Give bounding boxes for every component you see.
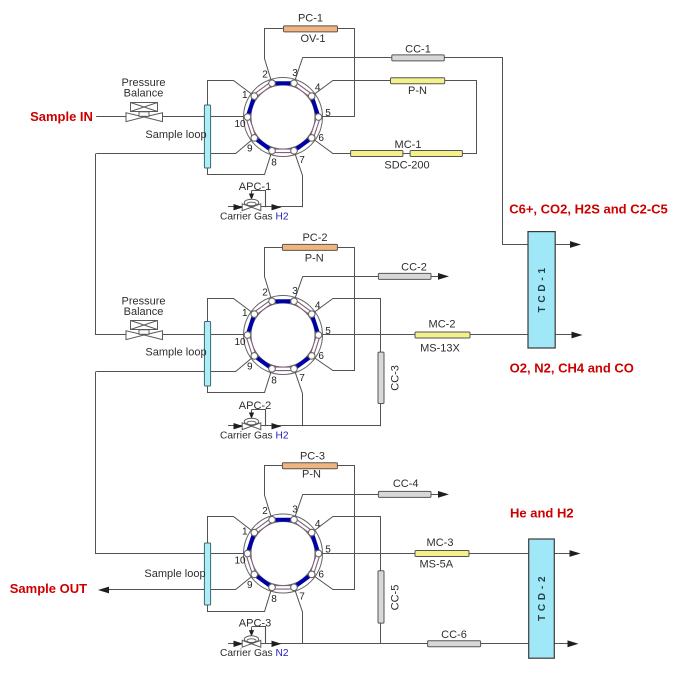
svg-text:Carrier Gas N2: Carrier Gas N2 bbox=[220, 648, 289, 659]
svg-text:APC-1: APC-1 bbox=[239, 181, 271, 193]
arrow TCD-1 lower outlet bbox=[555, 334, 572, 336]
svg-text:Carrier Gas H2: Carrier Gas H2 bbox=[220, 431, 289, 442]
svg-text:MC-2: MC-2 bbox=[429, 318, 456, 330]
svg-text:Sample OUT: Sample OUT bbox=[10, 581, 87, 596]
valve V1 loop tube port 3-port 4 bbox=[294, 83, 312, 96]
valve V1 port 3 bbox=[291, 68, 299, 87]
svg-text:CC-1: CC-1 bbox=[405, 43, 431, 55]
column P-N valve1 (yellow) bbox=[391, 78, 445, 84]
wire column PC-2 to valve V2 port 6 bbox=[312, 248, 355, 371]
valve V2 port 4 bbox=[308, 301, 321, 318]
valve V1 port 2 bbox=[262, 69, 275, 86]
column MC-1 segment B (yellow) bbox=[410, 151, 462, 157]
wire inter-valve line V1 to V2 pressure balance bbox=[96, 154, 205, 335]
svg-text:MS-13X: MS-13X bbox=[420, 342, 460, 354]
svg-text:MS-5A: MS-5A bbox=[419, 558, 453, 570]
column CC-6 (gray) bbox=[428, 641, 481, 647]
svg-text:MC-1: MC-1 bbox=[395, 139, 422, 151]
svg-text:7: 7 bbox=[299, 373, 305, 384]
valve V2 rotor channel port 8-port 9 bbox=[254, 356, 272, 369]
svg-text:OV-1: OV-1 bbox=[300, 33, 325, 45]
svg-text:5: 5 bbox=[325, 545, 331, 556]
svg-text:9: 9 bbox=[247, 144, 253, 155]
svg-text:Sample IN: Sample IN bbox=[30, 109, 93, 124]
svg-text:PC-3: PC-3 bbox=[300, 450, 325, 462]
valve V2 port 2 bbox=[262, 287, 275, 304]
svg-text:7: 7 bbox=[299, 155, 305, 166]
svg-text:He and H2: He and H2 bbox=[510, 505, 574, 520]
svg-text:CC-6: CC-6 bbox=[441, 629, 467, 641]
valve V3 port 8 bbox=[269, 584, 278, 605]
wire valve V3 port 9 to sample loop SL3 bbox=[211, 574, 255, 589]
wire valve V2 port 3 to column CC-2 vent bbox=[294, 277, 378, 302]
svg-text:9: 9 bbox=[247, 580, 253, 591]
svg-text:3: 3 bbox=[292, 504, 298, 515]
label Pressure Balance PB1 bbox=[121, 77, 165, 100]
svg-text:9: 9 bbox=[247, 362, 253, 373]
wire valve V2 port 5 to column MC-2 bbox=[319, 334, 416, 336]
wire valve V1 port 2 to column OV-1 bbox=[265, 29, 284, 84]
pressure balance PB2 bbox=[126, 321, 163, 340]
arrow TCD-1 upper outlet bbox=[570, 241, 581, 248]
valve V1 rotor channel port 2-port 3 bbox=[272, 81, 294, 85]
valve V2 loop tube port 3-port 4 bbox=[294, 301, 312, 314]
label Pressure Balance PB2 bbox=[121, 295, 165, 318]
wire column P-N to column MC-1 bbox=[445, 81, 477, 154]
svg-text:1: 1 bbox=[242, 527, 248, 538]
wire valve V1 port 6 to column MC-1 bbox=[312, 138, 351, 154]
valve V1 port 10 bbox=[234, 114, 250, 130]
wire carrier gas 2 inlet bbox=[228, 425, 381, 427]
wire column MC-2 to TCD-1 bbox=[470, 334, 528, 336]
svg-text:PC-2: PC-2 bbox=[302, 232, 327, 244]
APC-3 automatic pressure controller valve bbox=[242, 627, 265, 648]
wire valve V1 port 3 to column CC-1 to TCD-1 bbox=[294, 58, 528, 245]
valve V1 port 7 bbox=[291, 148, 306, 166]
wire Sample IN inlet line to sample loop SL1 bbox=[96, 116, 204, 118]
sample loop SL1 bbox=[204, 105, 210, 168]
valve V2 rotor channel port 10-port 1 bbox=[248, 314, 255, 335]
valve V1 rotor channel port 8-port 9 bbox=[254, 138, 272, 151]
wire valve V2 port 8 to sample loop SL2 bottom bbox=[208, 369, 273, 393]
svg-text:1: 1 bbox=[242, 308, 248, 319]
detector TCD-2 bbox=[529, 539, 555, 658]
valve V3 rotor channel port 6-port 7 bbox=[294, 574, 312, 587]
svg-text:Sample loop: Sample loop bbox=[145, 129, 206, 141]
wire valve V1 port 4 to column P-N bbox=[312, 81, 391, 97]
valve V1 port 8 bbox=[269, 148, 278, 169]
valve V3 port 6 bbox=[308, 570, 324, 581]
column CC-1 (gray) bbox=[392, 55, 445, 61]
svg-text:P-N: P-N bbox=[302, 468, 321, 480]
arrow carrier gas 2 after APC-2 bbox=[272, 423, 282, 429]
valve V3 loop tube port 1-port 2 bbox=[254, 520, 272, 533]
valve V1 port 6 bbox=[308, 133, 324, 144]
column MC-1 segment A (yellow) bbox=[351, 151, 403, 157]
svg-text:2: 2 bbox=[262, 287, 268, 298]
valve V3 port 7 bbox=[291, 584, 306, 602]
svg-text:PC-1: PC-1 bbox=[298, 12, 323, 24]
valve V1 port 5 bbox=[315, 108, 331, 120]
valve V2 loop tube port 5-port 6 bbox=[312, 335, 319, 356]
wire TCD-1 upper outlet bbox=[555, 244, 570, 246]
svg-text:APC-2: APC-2 bbox=[239, 400, 271, 412]
svg-text:10: 10 bbox=[234, 119, 246, 130]
valve V2 port 1 bbox=[242, 308, 258, 319]
wire valve V3 port 7 to carrier line 3 bbox=[294, 587, 303, 644]
svg-text:4: 4 bbox=[315, 519, 321, 530]
valve V2 rotor channel port 4-port 5 bbox=[312, 314, 319, 335]
svg-text:MC-3: MC-3 bbox=[427, 537, 454, 549]
svg-text:T C D - 2: T C D - 2 bbox=[537, 576, 548, 621]
wire valve V2 port 4 to column CC-3 bbox=[312, 299, 381, 353]
wire valve V1 port 10 to sample loop SL1 bbox=[211, 116, 248, 118]
wire valve V1 port 1 to sample loop SL1 top bbox=[208, 81, 255, 106]
valve V2 rotor channel port 6-port 7 bbox=[294, 356, 312, 369]
valve V3 loop tube port 7-port 8 bbox=[272, 585, 294, 590]
valve V3 port 3 bbox=[291, 504, 299, 523]
arrow TCD-2 upper outlet bbox=[554, 553, 570, 555]
wire valve V3 port 1 to sample loop SL3 top bbox=[208, 517, 255, 544]
wire valve V1 port 9 to sample loop SL1 bbox=[211, 138, 255, 154]
svg-text:C6+, CO2, H2S and C2-C5: C6+, CO2, H2S and C2-C5 bbox=[509, 202, 668, 217]
svg-text:T C D - 1: T C D - 1 bbox=[537, 267, 548, 312]
svg-text:8: 8 bbox=[271, 594, 277, 605]
svg-text:6: 6 bbox=[318, 351, 324, 362]
wire valve V2 port 2 to column PC-2 bbox=[265, 248, 283, 302]
valve V3 port 9 bbox=[247, 571, 258, 591]
valve V2 port 5 bbox=[315, 326, 331, 338]
valve V2 port 3 bbox=[291, 286, 299, 305]
svg-text:5: 5 bbox=[325, 108, 331, 119]
pressure balance PB1 bbox=[126, 103, 163, 122]
valve V3 loop tube port 3-port 4 bbox=[294, 520, 312, 533]
wire inter-valve line V2 to V3 bbox=[96, 372, 205, 554]
wire sample loop SL1 out to inter-valve line bbox=[96, 153, 204, 155]
valve V3 port 5 bbox=[315, 545, 331, 557]
column PC-2 / P-N (orange) bbox=[282, 244, 337, 250]
wire carrier gas 1 inlet bbox=[228, 206, 302, 208]
valve V2 port 7 bbox=[291, 366, 306, 384]
valve V3 loop tube port 9-port 10 bbox=[248, 554, 255, 575]
wire column MC-3 to TCD-2 bbox=[469, 553, 529, 555]
wire valve V3 port 2 to column PC-3 bbox=[265, 466, 283, 520]
valve V2 loop tube port 9-port 10 bbox=[248, 335, 255, 356]
column CC-2 (gray) bbox=[378, 273, 431, 279]
wire valve V2 port 1 to sample loop SL2 top bbox=[208, 299, 255, 322]
svg-text:8: 8 bbox=[271, 375, 277, 386]
valve V1 port 4 bbox=[308, 83, 321, 100]
svg-text:APC-3: APC-3 bbox=[239, 617, 271, 629]
valve V2 port 6 bbox=[308, 351, 324, 362]
arrow carrier gas 1 inlet bbox=[234, 204, 244, 210]
valve V2 loop tube port 1-port 2 bbox=[254, 301, 272, 314]
wire valve V1 port 7 to carrier gas line bbox=[294, 151, 303, 207]
svg-text:P-N: P-N bbox=[305, 253, 324, 265]
valve V2 port 8 bbox=[269, 366, 278, 387]
valve V1 port 9 bbox=[247, 135, 258, 155]
svg-text:8: 8 bbox=[271, 157, 277, 168]
wire valve V3 port 3 to column CC-4 vent bbox=[294, 495, 378, 520]
arrow TCD-2 lower outlet bbox=[554, 643, 568, 645]
svg-text:Balance: Balance bbox=[124, 87, 164, 99]
sample loop SL2 bbox=[204, 322, 210, 387]
column PC-1 / OV-1 (orange) bbox=[284, 26, 338, 32]
svg-text:2: 2 bbox=[262, 69, 268, 80]
valve V2 10-port rotary valve body bbox=[244, 296, 323, 375]
svg-text:CC-4: CC-4 bbox=[393, 478, 419, 490]
wire valve V1 port 8 to sample loop SL1 bottom bbox=[208, 151, 273, 175]
column CC-4 (gray) bbox=[378, 491, 431, 497]
svg-text:6: 6 bbox=[318, 133, 324, 144]
svg-text:4: 4 bbox=[315, 301, 321, 312]
valve V2 loop tube port 7-port 8 bbox=[272, 366, 294, 371]
valve V2 port 9 bbox=[247, 353, 258, 373]
arrow CC-2 vent bbox=[438, 273, 449, 280]
svg-text:CC-2: CC-2 bbox=[401, 261, 427, 273]
svg-text:7: 7 bbox=[299, 591, 305, 602]
svg-text:5: 5 bbox=[325, 326, 331, 337]
svg-text:O2, N2, CH4 and CO: O2, N2, CH4 and CO bbox=[510, 360, 634, 375]
arrow carrier gas 3 after APC-3 bbox=[272, 641, 282, 647]
wire valve V2 port 7 to carrier line 2 bbox=[294, 369, 303, 426]
valve V1 loop tube port 5-port 6 bbox=[312, 117, 319, 138]
arrow CC-4 vent bbox=[438, 491, 449, 498]
APC-2 automatic pressure controller valve bbox=[242, 410, 265, 430]
svg-text:1: 1 bbox=[242, 90, 248, 101]
valve V2 port 10 bbox=[234, 332, 250, 348]
valve V1 rotor channel port 4-port 5 bbox=[312, 96, 319, 117]
wire valve V2 port 9 to sample loop SL2 bbox=[211, 356, 255, 372]
wire Sample OUT line bbox=[109, 589, 205, 591]
valve V1 rotor channel port 10-port 1 bbox=[248, 96, 255, 117]
svg-text:CC-5: CC-5 bbox=[389, 585, 401, 611]
column CC-5 (gray vertical) bbox=[378, 571, 384, 623]
wire valve V3 port 10 to sample loop SL3 bbox=[211, 553, 248, 555]
arrow Sample OUT bbox=[98, 587, 109, 594]
wire valve V3 port 5 to column MC-3 bbox=[319, 553, 416, 555]
svg-text:10: 10 bbox=[234, 556, 246, 567]
valve V3 rotor channel port 10-port 1 bbox=[248, 533, 255, 554]
sample loop SL3 bbox=[204, 543, 210, 605]
svg-text:6: 6 bbox=[318, 570, 324, 581]
svg-text:P-N: P-N bbox=[408, 85, 427, 97]
valve V3 port 2 bbox=[262, 506, 275, 523]
column CC-3 (gray vertical) bbox=[378, 352, 384, 403]
arrow carrier gas 1 after APC-1 bbox=[272, 204, 282, 210]
valve V2 rotor channel port 2-port 3 bbox=[272, 299, 294, 303]
column MC-2 (yellow) bbox=[415, 332, 470, 338]
wire column CC-6 to TCD-2 bbox=[481, 643, 529, 645]
valve V1 port 1 bbox=[242, 90, 258, 101]
valve V1 loop tube port 9-port 10 bbox=[248, 117, 255, 138]
svg-text:3: 3 bbox=[292, 68, 298, 79]
wire valve V3 port 4 to column CC-5 bbox=[312, 517, 381, 571]
wire valve V3 port 8 to sample loop SL3 bottom bbox=[208, 587, 273, 611]
wire MC-1 split gap bbox=[403, 153, 410, 155]
svg-text:Sample loop: Sample loop bbox=[144, 568, 205, 580]
APC-1 automatic pressure controller valve bbox=[242, 191, 265, 211]
svg-text:Balance: Balance bbox=[124, 306, 164, 318]
wire valve V2 port 10 to sample loop SL2 bbox=[211, 334, 248, 336]
valve V3 rotor channel port 4-port 5 bbox=[312, 533, 319, 554]
wire column CC-3 to carrier line 2 bbox=[380, 404, 382, 427]
svg-text:SDC-200: SDC-200 bbox=[384, 159, 429, 171]
svg-text:2: 2 bbox=[262, 506, 268, 517]
svg-text:4: 4 bbox=[315, 83, 321, 94]
svg-text:3: 3 bbox=[292, 286, 298, 297]
valve V1 rotor channel port 6-port 7 bbox=[294, 138, 312, 151]
detector TCD-1 bbox=[528, 232, 555, 348]
wire sample loop SL2 out to inter-valve line bbox=[96, 371, 204, 373]
svg-text:Sample loop: Sample loop bbox=[145, 346, 206, 358]
svg-text:Carrier Gas H2: Carrier Gas H2 bbox=[220, 212, 289, 223]
column PC-3 / P-N (orange) bbox=[282, 463, 337, 469]
wire column CC-5 to carrier line 3 bbox=[380, 623, 382, 644]
valve V1 10-port rotary valve body bbox=[244, 78, 323, 157]
valve V3 port 10 bbox=[234, 550, 250, 566]
valve V3 rotor channel port 2-port 3 bbox=[272, 518, 294, 522]
valve V1 loop tube port 1-port 2 bbox=[254, 83, 272, 96]
wire column PC-3 to valve V3 port 6 bbox=[312, 466, 355, 590]
valve V1 loop tube port 7-port 8 bbox=[272, 149, 294, 154]
wire column OV-1 to valve V1 port 5 bbox=[319, 29, 355, 117]
wire carrier gas 3 inlet to CC-6 bbox=[228, 643, 428, 645]
svg-text:10: 10 bbox=[234, 337, 246, 348]
valve V3 loop tube port 5-port 6 bbox=[312, 554, 319, 575]
valve V3 rotor channel port 8-port 9 bbox=[254, 574, 272, 587]
svg-text:CC-3: CC-3 bbox=[389, 365, 401, 391]
arrow carrier gas 3 inlet bbox=[234, 641, 244, 647]
valve V3 port 1 bbox=[242, 527, 258, 538]
column MC-3 (yellow) bbox=[415, 551, 469, 557]
valve V3 port 4 bbox=[308, 519, 321, 536]
arrow carrier gas 2 inlet bbox=[234, 423, 244, 429]
valve V3 10-port rotary valve body bbox=[244, 514, 323, 593]
